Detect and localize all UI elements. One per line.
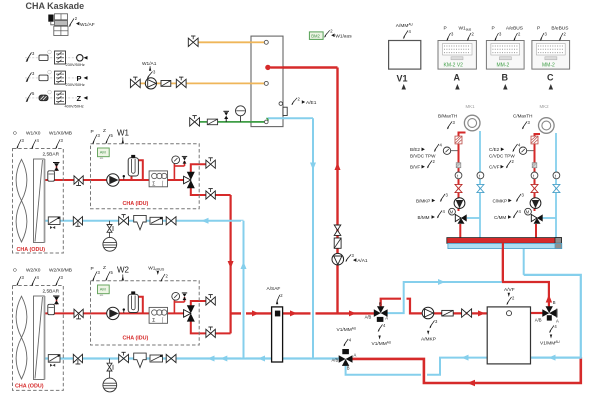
- svg-text:MM-2: MM-2: [542, 62, 555, 68]
- svg-text:B/VF: B/VF: [410, 165, 420, 170]
- svg-text:Z: Z: [103, 128, 106, 134]
- svg-text:W2: W2: [117, 266, 130, 275]
- svg-text:A/eBUS: A/eBUS: [506, 26, 523, 32]
- svg-text:A/B: A/B: [535, 318, 542, 323]
- svg-text:eH.: eH.: [100, 293, 104, 297]
- svg-text:A/B: A/B: [365, 314, 372, 319]
- svg-text:P: P: [444, 26, 447, 32]
- svg-text:⌠: ⌠: [161, 317, 164, 324]
- svg-text:A: A: [454, 73, 461, 83]
- svg-text:A/B: A/B: [332, 358, 339, 363]
- svg-text:M: M: [450, 210, 454, 215]
- svg-text:B: B: [379, 301, 382, 306]
- svg-text:P: P: [91, 129, 94, 135]
- svg-text:M: M: [526, 210, 530, 215]
- svg-text:2,5BAR: 2,5BAR: [43, 289, 60, 295]
- svg-text:CHA (IDU): CHA (IDU): [123, 336, 149, 342]
- svg-text:W1/X0: W1/X0: [26, 131, 41, 137]
- svg-text:A/E1: A/E1: [306, 100, 317, 106]
- svg-text:P: P: [537, 26, 540, 32]
- svg-text:CHA (IDU): CHA (IDU): [123, 201, 149, 207]
- svg-text:A: A: [385, 316, 388, 321]
- svg-text:C: C: [547, 73, 554, 83]
- svg-text:MK2: MK2: [540, 104, 550, 109]
- svg-text:CHA (ODU): CHA (ODU): [17, 247, 46, 253]
- svg-text:C/E2: C/E2: [489, 147, 500, 152]
- svg-text:B/MaxTH: B/MaxTH: [438, 114, 457, 119]
- svg-text:B/eBUS: B/eBUS: [551, 26, 568, 32]
- svg-text:MK1: MK1: [466, 104, 476, 109]
- svg-text:C/MaxTH: C/MaxTH: [513, 114, 532, 119]
- svg-text:O: O: [13, 268, 17, 274]
- svg-text:A/VF: A/VF: [504, 287, 515, 293]
- svg-text:BM2: BM2: [311, 33, 320, 38]
- svg-text:B: B: [502, 73, 509, 83]
- svg-text:W1/X0/MB: W1/X0/MB: [49, 131, 72, 137]
- svg-text:A/A1: A/A1: [357, 258, 368, 264]
- svg-text:W1/A1: W1/A1: [142, 61, 157, 67]
- svg-text:B/VDC TPW: B/VDC TPW: [410, 154, 436, 159]
- svg-text:W1/AF: W1/AF: [80, 22, 95, 28]
- svg-text:B/E2: B/E2: [410, 147, 420, 152]
- svg-text:W2/X0: W2/X0: [26, 268, 41, 274]
- svg-text:400V/50Hz: 400V/50Hz: [65, 104, 84, 109]
- svg-text:W1: W1: [117, 129, 130, 138]
- svg-text:V1: V1: [397, 74, 408, 84]
- svg-text:A/SAF: A/SAF: [267, 286, 281, 292]
- svg-text:Σ: Σ: [152, 318, 155, 324]
- svg-text:B: B: [347, 365, 350, 370]
- svg-text:⌠: ⌠: [161, 180, 164, 187]
- svg-text:B: B: [553, 300, 556, 305]
- svg-text:2,5BAR: 2,5BAR: [43, 152, 60, 158]
- svg-text:P: P: [91, 266, 94, 272]
- svg-text:C/VDC TPW: C/VDC TPW: [489, 154, 515, 159]
- svg-text:A: A: [354, 353, 357, 358]
- svg-text:CHA (ODU): CHA (ODU): [15, 383, 44, 389]
- svg-text:Σ: Σ: [152, 181, 155, 187]
- svg-text:Z: Z: [77, 94, 82, 103]
- svg-text:B/MM: B/MM: [418, 215, 430, 220]
- svg-text:W1/aus: W1/aus: [335, 33, 352, 39]
- svg-text:O: O: [13, 131, 17, 137]
- svg-text:230V/50Hz: 230V/50Hz: [66, 82, 85, 87]
- svg-text:MM-2: MM-2: [497, 62, 510, 68]
- svg-text:A: A: [556, 319, 559, 324]
- svg-text:AM: AM: [100, 286, 106, 291]
- svg-text:B/MKP: B/MKP: [416, 198, 430, 203]
- svg-text:230V/50Hz: 230V/50Hz: [66, 62, 85, 67]
- svg-text:C/MM: C/MM: [494, 215, 506, 220]
- svg-text:CHA Kaskade: CHA Kaskade: [26, 1, 85, 11]
- svg-text:W2/X0/MB: W2/X0/MB: [49, 268, 72, 274]
- svg-text:C/VF: C/VF: [489, 165, 500, 170]
- svg-text:eH.: eH.: [100, 156, 104, 160]
- svg-text:P: P: [492, 26, 495, 32]
- svg-text:Z: Z: [103, 265, 106, 271]
- svg-text:KM-2 V2: KM-2 V2: [444, 62, 464, 68]
- svg-text:A/MKP: A/MKP: [421, 337, 436, 343]
- svg-text:AM: AM: [100, 149, 106, 154]
- svg-text:C/MKP: C/MKP: [493, 198, 508, 203]
